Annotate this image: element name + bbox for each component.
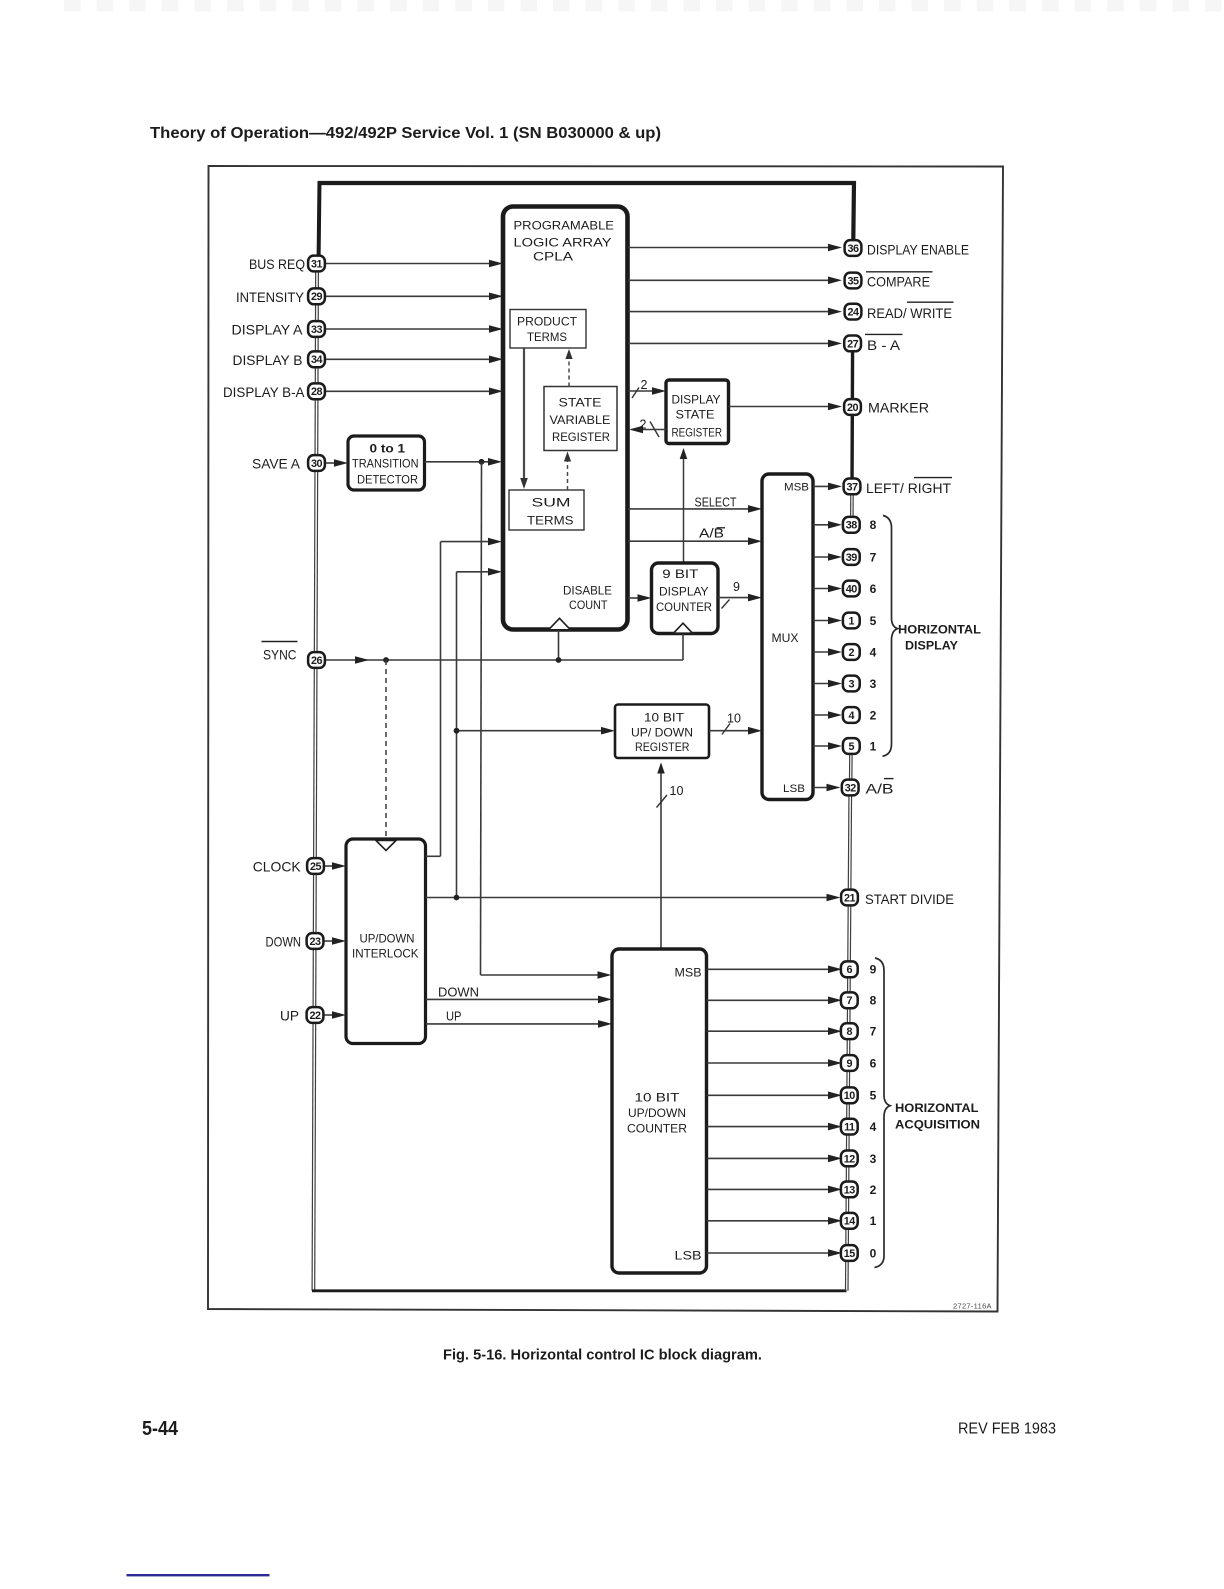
svg-text:6: 6: [847, 964, 853, 976]
svg-text:TRANSITION: TRANSITION: [352, 459, 419, 471]
pin 35 (COMPARE-bar): [845, 273, 862, 289]
svg-text:10: 10: [727, 712, 741, 726]
pin 26 (SYNC): [308, 652, 325, 668]
pin 4 (display bit 2): [843, 707, 860, 723]
pin 13 (acquisition bit 2): [841, 1182, 858, 1198]
svg-text:32: 32: [845, 782, 857, 794]
bus width marker: 2 (upper): [632, 388, 639, 399]
pin 4 wire from MUX: [813, 714, 831, 716]
svg-text:PRODUCT: PRODUCT: [517, 315, 578, 329]
svg-text:29: 29: [311, 291, 323, 303]
svg-text:REGISTER: REGISTER: [672, 428, 723, 440]
svg-text:4: 4: [870, 645, 877, 659]
svg-text:12: 12: [844, 1153, 856, 1165]
svg-text:4: 4: [870, 1120, 877, 1134]
svg-text:DOWN: DOWN: [438, 986, 479, 1000]
svg-text:MARKER: MARKER: [868, 399, 929, 415]
svg-text:9: 9: [847, 1058, 853, 1070]
wire: left pin bus (lower): [315, 266, 319, 1291]
wire: interlock output to CPLA, 10-bit register and START DIVIDE: [426, 897, 831, 899]
svg-text:7: 7: [847, 995, 853, 1007]
pin 11 (acquisition bit 4): [841, 1119, 858, 1135]
wire: 10-bit register to MUX (10-bit bus): [709, 730, 751, 732]
svg-text:SAVE A: SAVE A: [252, 456, 301, 472]
svg-text:2727-116A: 2727-116A: [953, 1302, 992, 1311]
svg-text:ACQUISITION: ACQUISITION: [895, 1118, 980, 1132]
svg-text:21: 21: [844, 892, 856, 904]
pin 6 wire from 10-bit counter: [707, 968, 832, 970]
pin 29 (INTENSITY) input wire to CPLA: [326, 295, 492, 297]
svg-text:2: 2: [849, 647, 855, 659]
pin 35 wire from CPLA: [628, 279, 831, 281]
wire: 9-bit display counter top up to display state register: [683, 450, 685, 563]
svg-text:3: 3: [870, 677, 877, 691]
svg-text:10: 10: [670, 784, 684, 798]
wire: right bus pin 37 to pin 38: [852, 487, 854, 525]
svg-text:7: 7: [870, 550, 877, 564]
block: MUX: [762, 474, 813, 800]
svg-text:26: 26: [311, 655, 323, 667]
pin 8 wire from 10-bit counter: [707, 1030, 832, 1032]
svg-text:REV FEB 1983: REV FEB 1983: [958, 1421, 1056, 1438]
svg-text:REGISTER: REGISTER: [552, 430, 610, 444]
pin 40 wire from MUX: [813, 588, 831, 590]
pin 24 (READ/WRITE-bar): [845, 304, 862, 320]
wire: interlock output up to CPLA input: [426, 855, 441, 857]
pin 10 wire from 10-bit counter: [707, 1094, 832, 1096]
wire: STATE VARIABLE REGISTER up to PRODUCT TERMS (dashed): [568, 352, 570, 387]
svg-text:CLOCK: CLOCK: [253, 859, 302, 875]
pin 23 (DOWN): [307, 933, 324, 949]
svg-text:4: 4: [849, 710, 855, 722]
wire: interlock UP output to 10-bit counter: [426, 1023, 602, 1025]
svg-text:22: 22: [309, 1010, 321, 1022]
pin 32 wire from MUX LSB: [813, 787, 830, 789]
pin 11 wire from 10-bit counter: [707, 1126, 832, 1128]
pin 12 (acquisition bit 3): [841, 1151, 858, 1167]
pin 13 wire from 10-bit counter: [707, 1188, 832, 1190]
junction: SYNC to up/down interlock clock: [383, 657, 389, 663]
pin 9 wire from 10-bit counter: [707, 1062, 832, 1064]
svg-text:1: 1: [870, 1214, 877, 1228]
block: STATE VARIABLE REGISTER (inside CPLA): [544, 387, 617, 451]
svg-text:DOWN: DOWN: [266, 934, 302, 950]
svg-text:5: 5: [870, 1089, 877, 1103]
svg-text:HORIZONTAL: HORIZONTAL: [898, 623, 981, 637]
svg-text:REGISTER: REGISTER: [635, 740, 690, 754]
svg-text:3: 3: [870, 1152, 877, 1166]
wire: top feedback bus: [318, 181, 856, 185]
svg-text:5: 5: [849, 741, 855, 753]
svg-text:Fig. 5-16. Horizontal control: Fig. 5-16. Horizontal control IC block d…: [443, 1347, 762, 1364]
svg-text:INTERLOCK: INTERLOCK: [352, 947, 419, 961]
pin 2 wire from MUX: [813, 651, 831, 653]
svg-text:MSB: MSB: [675, 968, 702, 980]
wire: A/B-bar from CPLA to MUX: [628, 540, 751, 542]
svg-text:DISPLAY: DISPLAY: [905, 639, 958, 653]
svg-text:10: 10: [844, 1090, 856, 1102]
svg-text:PROGRAMABLE: PROGRAMABLE: [514, 219, 615, 233]
svg-text:BUS REQ: BUS REQ: [249, 256, 305, 272]
pin 38 wire from MUX: [813, 524, 831, 526]
wire: SAVE A feed down to 10-bit up/down counter MSB input: [481, 462, 482, 975]
pin 36 wire from CPLA: [628, 247, 831, 249]
pin 5 wire from MUX: [813, 745, 831, 747]
pin 30 (SAVE A): [308, 455, 325, 471]
brace: horizontal acquisition group: [875, 958, 891, 1268]
clock caret on up/down interlock top edge: [376, 841, 396, 851]
pin 3 wire from MUX: [813, 683, 831, 685]
binder mark line: [127, 1574, 270, 1576]
svg-text:6: 6: [870, 1056, 877, 1070]
svg-text:39: 39: [846, 552, 858, 564]
block: 10 BIT UP/DOWN COUNTER: [612, 949, 707, 1273]
svg-text:COMPARE: COMPARE: [867, 274, 930, 290]
svg-text:DISPLAY B-A: DISPLAY B-A: [223, 384, 305, 400]
pin 39 (display bit 7): [843, 549, 860, 565]
pin 26 (SYNC) wire with junctions to CPLA caret, interlock caret and 9-bit counter caret: [326, 659, 683, 661]
pin 34 (DISPLAY B) input wire to CPLA: [326, 358, 492, 360]
pin 6 (acquisition bit 9): [841, 961, 858, 977]
pin 7 (acquisition bit 8): [841, 992, 858, 1008]
svg-text:READ/ WRITE: READ/ WRITE: [867, 305, 952, 321]
svg-text:COUNTER: COUNTER: [627, 1122, 687, 1136]
svg-text:3: 3: [849, 678, 855, 690]
pin 29 (INTENSITY): [308, 288, 325, 304]
pin 38 (display bit 8): [843, 517, 860, 533]
svg-text:9: 9: [870, 963, 877, 977]
pin 2 (display bit 4): [843, 644, 860, 660]
wire: bottom bus: [312, 1289, 847, 1292]
pin 28 (DISPLAY B-A): [308, 383, 325, 399]
svg-text:MUX: MUX: [772, 631, 799, 645]
pin 37 (LEFT/RIGHT-bar): [844, 479, 861, 495]
svg-text:7: 7: [870, 1025, 877, 1039]
pin 14 (acquisition bit 1): [841, 1213, 858, 1229]
pin 37 wire from MUX MSB: [813, 485, 831, 487]
svg-text:30: 30: [311, 458, 323, 470]
svg-text:A/B: A/B: [866, 780, 894, 796]
pin 27 (B-A-bar): [844, 336, 861, 352]
pin 20 (MARKER): [844, 399, 861, 415]
pin 30 (SAVE A) wire to transition detector: [326, 462, 338, 464]
svg-text:10 BIT: 10 BIT: [635, 1091, 681, 1105]
wire: display state register to CPLA (2-bit bus): [640, 429, 666, 431]
svg-text:37: 37: [846, 481, 858, 493]
wire: SUM TERMS up to STATE VARIABLE REGISTER (dashed): [567, 456, 569, 490]
pin 12 wire from 10-bit counter: [707, 1157, 832, 1159]
svg-text:25: 25: [310, 861, 322, 873]
svg-text:STATE: STATE: [676, 407, 715, 421]
IC block U-CPLA: PROGRAMABLE LOGIC ARRAY CPLA: [503, 207, 628, 630]
pin 24 wire from CPLA: [628, 311, 831, 313]
svg-text:1: 1: [849, 615, 855, 627]
pin 14 wire from 10-bit counter: [707, 1220, 832, 1222]
svg-text:11: 11: [844, 1122, 855, 1134]
pin 25 (CLOCK): [307, 858, 324, 874]
svg-text:COUNTER: COUNTER: [656, 600, 712, 614]
svg-text:MSB: MSB: [784, 482, 809, 494]
pin 7 wire from 10-bit counter: [707, 999, 832, 1001]
svg-text:LSB: LSB: [675, 1251, 702, 1263]
svg-text:40: 40: [846, 583, 858, 595]
pin 34 (DISPLAY B): [308, 351, 325, 367]
bus width marker: 10 (register to MUX): [722, 724, 730, 735]
svg-text:5: 5: [870, 614, 877, 628]
svg-text:DISPLAY: DISPLAY: [672, 393, 721, 407]
svg-text:9: 9: [733, 580, 740, 594]
bus width marker: 2 (lower): [650, 422, 659, 438]
brace: horizontal display group: [883, 516, 898, 757]
svg-text:B - A: B - A: [867, 337, 901, 353]
wire: SELECT from CPLA to MUX: [628, 508, 751, 510]
pin 21 (START DIVIDE): [841, 890, 858, 906]
wire: right bus pin 5 to pin 32: [851, 746, 853, 788]
block: 0 to 1 TRANSITION DETECTOR: [348, 436, 425, 490]
wire: right bus pin 27 to pin 20 to pin 37: [850, 344, 854, 487]
wire: transition detector output to CPLA: [425, 461, 492, 463]
wire: CPLA disable count output to 9-bit display counter: [628, 597, 641, 599]
block: UP/DOWN INTERLOCK: [346, 839, 426, 1044]
pin 39 wire from MUX: [813, 556, 831, 558]
svg-text:HORIZONTAL: HORIZONTAL: [895, 1101, 979, 1115]
svg-text:UP/DOWN: UP/DOWN: [360, 932, 415, 946]
pin 8 (acquisition bit 7): [841, 1023, 858, 1039]
junction: SYNC to CPLA clock: [556, 657, 562, 663]
svg-text:DISPLAY ENABLE: DISPLAY ENABLE: [867, 241, 969, 257]
svg-text:34: 34: [311, 354, 323, 366]
block: DISPLAY STATE REGISTER: [666, 380, 729, 444]
junction: node at transition detector output: [479, 459, 485, 465]
svg-text:13: 13: [844, 1184, 856, 1196]
pin 31 (BUS REQ): [308, 256, 325, 272]
svg-text:14: 14: [844, 1216, 856, 1228]
pin 23 (DOWN) wire to interlock: [325, 940, 337, 942]
clock caret on 9-bit display counter bottom edge: [674, 623, 693, 633]
svg-text:DISPLAY: DISPLAY: [659, 585, 709, 599]
svg-text:UP: UP: [280, 1008, 299, 1024]
svg-text:SYNC: SYNC: [263, 647, 297, 663]
svg-text:SUM: SUM: [532, 496, 571, 510]
wire: right bus pin 32 through pin 21 and pins 6-15 to bottom bus: [848, 788, 852, 1291]
svg-text:15: 15: [844, 1248, 856, 1260]
pin 33 (DISPLAY A) input wire to CPLA: [326, 328, 492, 330]
pin 33 (DISPLAY A): [308, 321, 325, 337]
svg-text:0: 0: [870, 1246, 877, 1260]
svg-text:24: 24: [847, 307, 859, 319]
wire: left pin bus (upper): [319, 181, 320, 266]
pin 3 (display bit 3): [843, 676, 860, 692]
pin 22 (UP) wire to interlock: [325, 1014, 337, 1016]
pin 15 (acquisition bit 0): [841, 1245, 858, 1261]
pin 5 (display bit 1): [843, 738, 860, 754]
wire: 10-bit up/down counter up to 10-bit register (10-bit bus): [660, 765, 662, 950]
block: 9 BIT DISPLAY COUNTER: [652, 563, 719, 634]
block: SUM TERMS (inside CPLA): [509, 490, 584, 530]
wire: interlock DOWN output to 10-bit counter: [426, 998, 602, 1000]
pin 20 wire from display state register: [729, 406, 832, 408]
svg-text:8: 8: [847, 1026, 853, 1038]
block: PRODUCT TERMS (inside CPLA): [510, 310, 586, 349]
svg-text:UP/DOWN: UP/DOWN: [628, 1106, 686, 1120]
pin 31 (BUS REQ) input wire to CPLA: [326, 263, 492, 265]
svg-text:DISABLE: DISABLE: [563, 584, 612, 598]
svg-text:8: 8: [870, 994, 877, 1008]
svg-text:LOGIC ARRAY: LOGIC ARRAY: [514, 236, 612, 250]
svg-text:COUNT: COUNT: [569, 598, 608, 612]
pin 27 wire from CPLA: [628, 342, 831, 344]
pin 1 wire from MUX: [813, 620, 831, 622]
svg-text:38: 38: [846, 520, 858, 532]
svg-text:8: 8: [870, 518, 877, 532]
svg-text:INTENSITY: INTENSITY: [236, 289, 305, 305]
svg-text:35: 35: [847, 275, 859, 287]
svg-text:1: 1: [870, 739, 877, 753]
svg-text:START DIVIDE: START DIVIDE: [865, 891, 954, 907]
pin 9 (acquisition bit 6): [841, 1055, 858, 1071]
pin 36 (DISPLAY ENABLE): [845, 240, 862, 256]
bus width marker: 10 (counter to register): [657, 795, 668, 808]
svg-text:31: 31: [311, 258, 323, 270]
svg-text:28: 28: [311, 386, 323, 398]
svg-text:33: 33: [311, 324, 323, 336]
bus width marker: 9: [722, 600, 730, 609]
svg-text:9 BIT: 9 BIT: [662, 567, 699, 581]
clock caret on CPLA bottom edge: [549, 618, 571, 630]
pin 1 (display bit 5): [843, 613, 860, 629]
svg-text:23: 23: [309, 936, 321, 948]
svg-text:TERMS: TERMS: [527, 514, 574, 528]
svg-text:10 BIT: 10 BIT: [644, 711, 685, 725]
svg-text:DETECTOR: DETECTOR: [357, 475, 418, 487]
svg-text:VARIABLE: VARIABLE: [550, 413, 611, 427]
svg-text:0 to 1: 0 to 1: [370, 442, 406, 456]
svg-text:UP/ DOWN: UP/ DOWN: [631, 726, 693, 740]
wire: CPLA to display state register (2-bit bus): [628, 390, 655, 392]
pin 28 (DISPLAY B-A) input wire to CPLA: [326, 390, 492, 392]
svg-text:DISPLAY B: DISPLAY B: [233, 352, 303, 368]
svg-text:A/B: A/B: [699, 527, 724, 541]
wire: right bus from top bus to pin 36: [851, 181, 856, 248]
svg-text:DISPLAY A: DISPLAY A: [232, 322, 304, 338]
pin 25 (CLOCK) wire to interlock: [325, 865, 336, 867]
pin 40 (display bit 6): [843, 581, 860, 597]
svg-text:Theory of Operation—492/492P S: Theory of Operation—492/492P Service Vol…: [150, 125, 661, 142]
wire: SYNC down to up/down interlock caret (dashed): [385, 660, 387, 838]
svg-text:36: 36: [847, 243, 859, 255]
wire: 9-bit display counter to MUX (9-bit bus): [718, 597, 751, 599]
pin 32 (A/B-bar): [842, 780, 859, 796]
pin 15 wire from 10-bit counter: [707, 1252, 832, 1254]
svg-text:27: 27: [847, 338, 859, 350]
svg-text:SELECT: SELECT: [695, 496, 737, 510]
svg-text:2: 2: [640, 418, 647, 432]
svg-text:2: 2: [641, 378, 648, 392]
svg-text:STATE: STATE: [559, 396, 602, 410]
pin 22 (UP): [307, 1007, 324, 1023]
junction: vertical feed to 10-bit register input: [454, 728, 460, 734]
svg-text:20: 20: [847, 402, 859, 414]
svg-text:LEFT/ RIGHT: LEFT/ RIGHT: [866, 480, 951, 496]
svg-text:5-44: 5-44: [142, 1418, 179, 1440]
svg-text:CPLA: CPLA: [533, 250, 573, 264]
svg-text:TERMS: TERMS: [527, 330, 567, 344]
pin 10 (acquisition bit 5): [841, 1087, 858, 1103]
block: 10 BIT UP/DOWN REGISTER: [615, 705, 709, 759]
svg-text:6: 6: [870, 582, 877, 596]
junction: interlock output to vertical feed: [454, 895, 460, 901]
svg-text:2: 2: [870, 708, 877, 722]
svg-text:LSB: LSB: [783, 783, 805, 795]
svg-text:UP: UP: [446, 1010, 462, 1024]
svg-text:2: 2: [870, 1183, 877, 1197]
wire: PRODUCT TERMS down to SUM TERMS: [523, 349, 525, 486]
